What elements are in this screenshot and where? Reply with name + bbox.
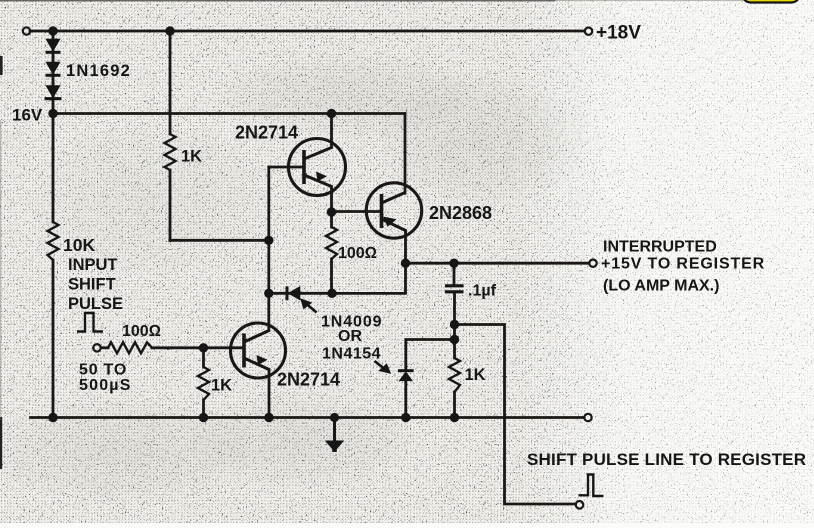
scan edge left [0, 56, 3, 75]
junction: ground rail / Q3 emitter [264, 413, 273, 422]
junction: diode row left [264, 289, 273, 298]
junction: ground rail / 1K pulldown [199, 413, 208, 422]
wire: Q3 emitter down to rail [268, 370, 271, 418]
terminal: shift pulse line to register [576, 501, 584, 509]
resistor R4 100 ohm (input, horizontal) [108, 342, 152, 353]
wire: capacitor branch bottom [453, 294, 456, 359]
wire: shift pulse line [455, 325, 576, 505]
wire: input after 100 ohm to Q3 base [152, 346, 244, 349]
wire: 1K bottom to base node [170, 239, 269, 242]
svg-text:100Ω: 100Ω [122, 323, 161, 340]
wire: 16V rail [53, 112, 405, 115]
junction: top rail / 1K pull-up [165, 26, 174, 35]
terminal: top rail left [23, 27, 30, 34]
wire: Q1 emitter node down to 100 ohm [330, 212, 333, 227]
resistor R1 1K (pull-up) [165, 134, 176, 170]
resistor R5 1K (base pulldown) [198, 367, 209, 400]
svg-text:(LO AMP MAX.): (LO AMP MAX.) [603, 278, 719, 295]
junction: diode row right / 100 ohm bottom [327, 289, 336, 298]
input pulse symbol [77, 313, 103, 332]
junction: Q2 emitter / +15V line [401, 259, 410, 268]
resistor R6 1K (right) [449, 358, 460, 392]
junction: base node / 1K pull-up [264, 236, 273, 245]
diode D2 1N1692 [46, 62, 61, 75]
svg-text:SHIFT: SHIFT [68, 276, 116, 294]
wire: 1K right bottom [453, 392, 456, 418]
svg-text:10K: 10K [63, 235, 95, 255]
svg-text:50 TO: 50 TO [79, 362, 127, 379]
junction: 16V rail / Q1 collector [327, 109, 336, 118]
wire: 1K base pulldown [202, 348, 205, 367]
junction: top rail / diode chain [48, 26, 57, 35]
ground [326, 418, 343, 453]
wire: Q1 base horizontal [269, 166, 304, 169]
wire: input terminal stub [101, 346, 108, 349]
shading clouds [370, 70, 590, 210]
transistor Q3 2N2714 (bottom) [231, 323, 286, 378]
junction: ground rail / 10K [48, 413, 57, 422]
wire: left vertical 16V down through 10K to bottom rail [52, 114, 55, 223]
junction: ground rail / ground symbol [330, 413, 339, 422]
svg-text:16V: 16V [12, 106, 43, 125]
annotation arrow to D4 [301, 299, 317, 313]
svg-text:2N2714: 2N2714 [277, 370, 340, 390]
wire: 1K pullup drop from top rail [169, 31, 172, 134]
junction: +15V line / capacitor [449, 259, 458, 268]
wire: zener branch top [406, 340, 455, 371]
junction: ground rail / zener [401, 413, 410, 422]
svg-text:+15V TO REGISTER: +15V TO REGISTER [601, 256, 765, 273]
resistor R3 100 ohm (collector) [326, 227, 337, 259]
diode D5 zener (vertical) [398, 371, 414, 381]
wire: Q1 emitter to Q2 base [332, 210, 382, 213]
svg-text:2N2714: 2N2714 [235, 123, 298, 143]
diode D4 1N4009/1N4154 (horizontal) [287, 286, 300, 300]
capacitor C1 .1uf [445, 286, 464, 292]
wire: 16V rail drop to Q2 collector [404, 114, 407, 194]
terminal: input shift pulse [93, 344, 100, 351]
open terminals [23, 27, 597, 508]
wire: bottom ground rail [31, 416, 585, 419]
node 16V [48, 109, 57, 118]
junction: Q3 base / 1K pulldown [199, 343, 208, 352]
annotation arrow to D5 [375, 361, 391, 373]
svg-text:OR: OR [338, 328, 362, 345]
diode D3 1N1692 [45, 86, 62, 99]
yellow sticker top right [743, 0, 800, 3]
svg-text:SHIFT PULSE LINE TO REGISTER: SHIFT PULSE LINE TO REGISTER [527, 450, 806, 469]
wire: +15V output line [406, 262, 590, 265]
wire: Q1 emitter down [330, 187, 333, 213]
svg-text:1N4154: 1N4154 [322, 346, 381, 363]
wire: Q2 emitter down to +15V line [404, 231, 407, 264]
wire: capacitor branch top [453, 263, 456, 284]
svg-text:2N2868: 2N2868 [429, 203, 492, 223]
wire: Q2 emitter node down and left to diode row [332, 263, 406, 293]
wire: diode chain vertical [52, 31, 55, 114]
junction: zener branch / 1K right [450, 335, 459, 344]
wire: diode row [269, 292, 332, 295]
wire: +18V top rail [30, 30, 585, 33]
svg-text:1K: 1K [465, 366, 486, 384]
junction: Q1 emitter / Q2 base / 100 ohm [327, 207, 336, 216]
svg-text:+18V: +18V [596, 23, 641, 44]
resistor R2 10K [48, 222, 59, 260]
transistor Q1 2N2714 (top) [289, 139, 346, 196]
transistor Q2 2N2868 [366, 183, 421, 238]
wire: zener bottom [404, 381, 407, 418]
svg-text:INPUT: INPUT [68, 256, 118, 274]
svg-text:1N1692: 1N1692 [66, 62, 131, 80]
wire: base node vertical (Q1 base / diode row / Q3 collector) [267, 167, 270, 331]
junction: capacitor bottom / shift pulse line [450, 320, 459, 329]
svg-text:1K: 1K [181, 148, 202, 166]
terminal: ground rail right [584, 414, 591, 421]
terminal: +15V to register [589, 260, 596, 267]
junction: ground rail / 1K right [450, 413, 459, 422]
svg-text:PULSE: PULSE [68, 295, 123, 313]
scan edge top [0, 0, 555, 1]
terminal: +18V [585, 28, 592, 35]
wire: Q1 collector up to 16V rail [330, 114, 333, 148]
svg-text:1K: 1K [211, 377, 232, 395]
svg-text:100Ω: 100Ω [338, 245, 377, 262]
svg-text:.1µf: .1µf [468, 283, 497, 300]
diode D1 1N1692 [46, 39, 61, 52]
svg-text:500µS: 500µS [79, 377, 132, 394]
svg-text:INTERRUPTED: INTERRUPTED [603, 239, 717, 256]
output pulse symbol [579, 475, 604, 497]
